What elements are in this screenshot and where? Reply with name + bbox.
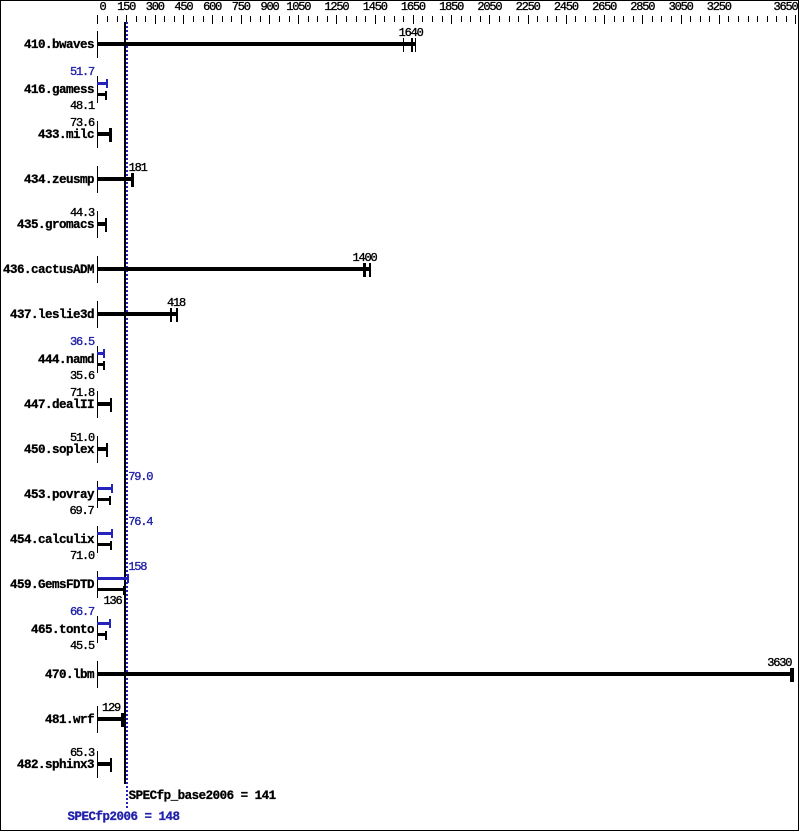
SPECfp2006 peak mean line (148), dotted (126, 22, 128, 808)
SPECfp2006 summary (68, 811, 180, 824)
row 410.bwaves (24, 39, 94, 52)
row 435.gromacs (17, 219, 94, 232)
row 453.povray (24, 489, 94, 502)
row 433.milc (38, 129, 94, 142)
row 470.lbm (45, 669, 94, 682)
row 436.cactusADM (3, 264, 94, 277)
row 482.sphinx3 (17, 759, 94, 772)
row 444.namd (38, 354, 94, 367)
row 450.soplex (24, 444, 94, 457)
row 454.calculix (10, 534, 94, 547)
axis ticks (97, 15, 98, 24)
row 465.tonto (31, 624, 94, 637)
row 459.GemsFDTD (10, 579, 94, 592)
SPECfp_base2006 mean line (141) (124, 22, 126, 784)
row 416.gamess (24, 84, 94, 97)
row 434.zeusmp (24, 174, 94, 187)
row 447.dealII (24, 399, 94, 412)
row 481.wrf (45, 714, 94, 727)
row 437.leslie3d (10, 309, 94, 322)
SPECfp_base2006 summary (129, 790, 276, 803)
axis labels (100, 1, 106, 13)
